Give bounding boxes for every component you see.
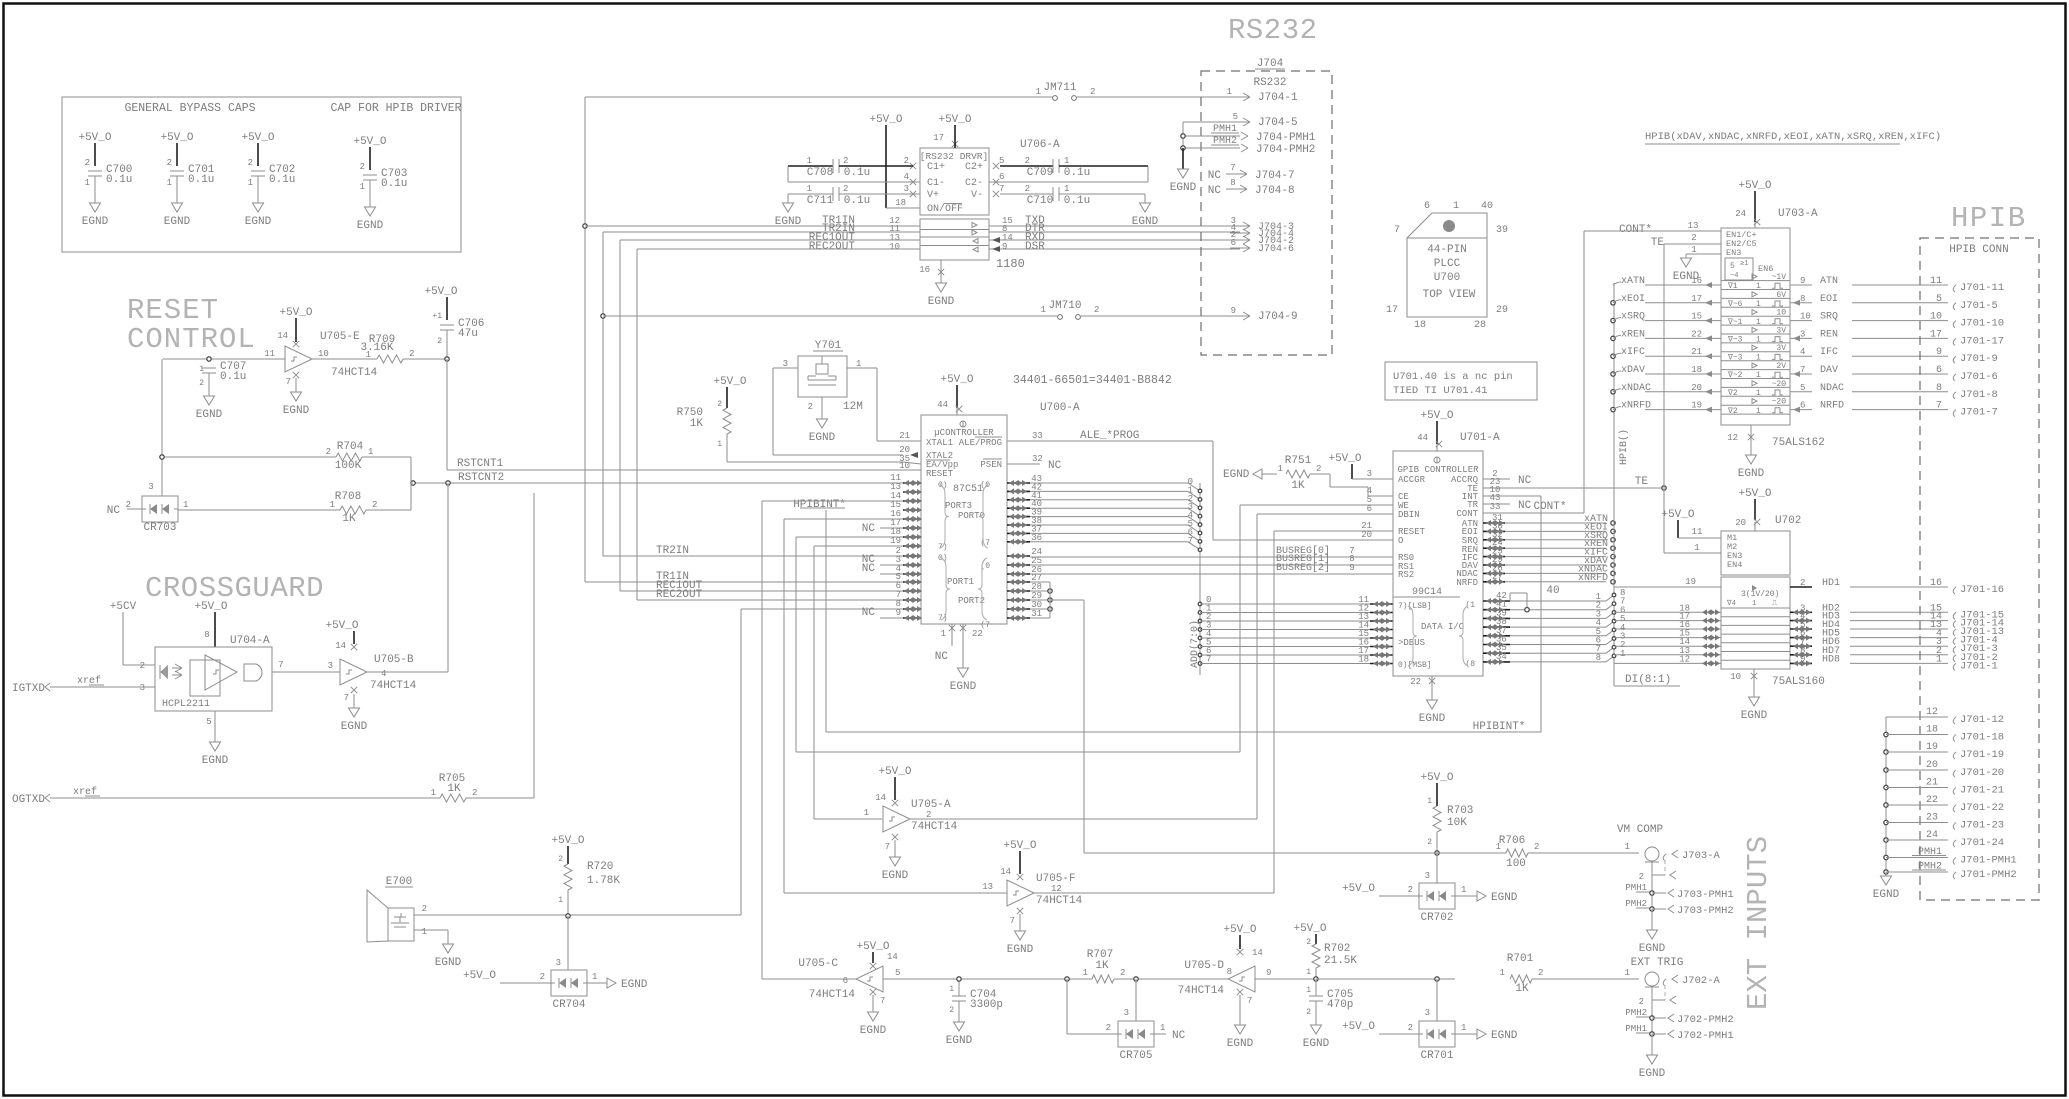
svg-text:21: 21 xyxy=(1926,778,1938,789)
svg-text:1: 1 xyxy=(183,500,188,510)
net ALE_*PROG xyxy=(1007,430,1213,540)
bus entry ADD 0 xyxy=(1188,477,1202,493)
bus HPIB() vertical xyxy=(1613,283,1615,678)
wire reset node to RSTCNT1 xyxy=(446,359,448,470)
svg-text:Y701: Y701 xyxy=(815,340,842,352)
svg-text:PORT2: PORT2 xyxy=(958,596,985,606)
resistor R708 xyxy=(178,491,411,525)
resistor R701 xyxy=(1500,953,1639,995)
ground EGND U703 EN3 xyxy=(1681,258,1692,267)
svg-text:9: 9 xyxy=(1936,347,1942,358)
op-amp U705-B xyxy=(325,620,416,733)
capacitor C710 xyxy=(1000,184,1159,228)
wire TR2IN trunk xyxy=(602,232,604,556)
svg-text:74HCT14: 74HCT14 xyxy=(809,989,856,1001)
svg-text:J701-16: J701-16 xyxy=(1960,584,2004,596)
svg-text:xIFC: xIFC xyxy=(1621,347,1645,358)
pin U701 22 EGND xyxy=(1410,676,1445,725)
diode CR702 xyxy=(1342,853,1518,924)
svg-text:J703-PMH2: J703-PMH2 xyxy=(1677,905,1734,917)
pin U701 D4 38 xyxy=(1483,614,1625,630)
power +5V_O U701 ACCGR xyxy=(1328,453,1374,479)
bus entry ADD 2 xyxy=(1188,494,1202,510)
svg-text:0.1u: 0.1u xyxy=(1064,195,1090,207)
net HD2 to J701-15 xyxy=(1790,603,2004,621)
svg-text:2: 2 xyxy=(360,162,365,172)
svg-text:74HCT14: 74HCT14 xyxy=(911,821,958,833)
svg-text:V-: V- xyxy=(971,190,983,201)
svg-text:6: 6 xyxy=(1231,238,1236,248)
svg-text:IFC: IFC xyxy=(1820,347,1838,358)
svg-text:EGND: EGND xyxy=(1223,469,1250,481)
pin U700 P1.1 3 xyxy=(896,555,922,568)
svg-text:14: 14 xyxy=(887,952,898,962)
svg-text:14: 14 xyxy=(335,641,346,651)
svg-text:2: 2 xyxy=(472,788,477,798)
svg-text:75ALS162: 75ALS162 xyxy=(1772,437,1825,449)
svg-text:HCPL2211: HCPL2211 xyxy=(162,699,210,710)
svg-text:EGND: EGND xyxy=(621,979,648,991)
svg-text:+5V_O: +5V_O xyxy=(325,620,358,632)
wire riser x762 xyxy=(761,501,763,979)
ground EGND J704 xyxy=(1170,148,1197,194)
svg-text:+5V_O: +5V_O xyxy=(856,941,889,953)
svg-text:DI(8:1): DI(8:1) xyxy=(1625,674,1671,686)
svg-text:17: 17 xyxy=(933,133,944,143)
svg-text:R702: R702 xyxy=(1324,943,1350,955)
pin U700 P3.6 18 xyxy=(890,527,922,540)
pin U700 P2.6 30 xyxy=(1007,600,1042,612)
svg-text:PORT3: PORT3 xyxy=(945,501,972,511)
svg-text:3: 3 xyxy=(1425,871,1430,881)
svg-text:RS232: RS232 xyxy=(1228,14,1318,47)
svg-text:EGND: EGND xyxy=(82,216,109,228)
svg-text:U705-C: U705-C xyxy=(798,958,838,970)
svg-text:C2-: C2- xyxy=(965,178,983,189)
svg-text:EGND: EGND xyxy=(1491,892,1518,904)
wire riser x784 xyxy=(783,519,785,893)
svg-text:7: 7 xyxy=(1247,996,1252,1006)
connector J702-A EXT TRIG xyxy=(1631,957,1684,969)
pin U700 P0.7 43 xyxy=(1007,474,1188,486)
svg-text:21.5K: 21.5K xyxy=(1324,955,1357,967)
svg-text:17: 17 xyxy=(1930,329,1942,340)
net xNDAC to U703 pin 20 xyxy=(1611,383,1721,395)
svg-text:∇2: ∇2 xyxy=(1727,389,1738,398)
svg-text:3V: 3V xyxy=(1776,326,1786,335)
pin J704-7 xyxy=(1208,163,1295,182)
svg-text:2: 2 xyxy=(1408,885,1413,895)
svg-text:∇2: ∇2 xyxy=(1727,407,1738,416)
svg-text:11: 11 xyxy=(1692,527,1703,537)
svg-text:100K: 100K xyxy=(335,460,362,472)
svg-text:1: 1 xyxy=(1756,371,1761,380)
svg-text:TOP VIEW: TOP VIEW xyxy=(1423,289,1476,301)
svg-text:40: 40 xyxy=(1546,585,1559,597)
svg-text:1: 1 xyxy=(807,156,812,166)
svg-text:6: 6 xyxy=(999,172,1004,182)
svg-text:7: 7 xyxy=(1010,916,1015,926)
wire riser x814 xyxy=(813,546,815,819)
svg-text:U700-A: U700-A xyxy=(1040,402,1080,414)
svg-text:14: 14 xyxy=(1000,867,1011,877)
net DI4 to U702 pin 15 xyxy=(1614,629,1721,641)
svg-text:∇1: ∇1 xyxy=(1727,282,1738,291)
svg-text:19: 19 xyxy=(1926,742,1938,753)
wire CE riser xyxy=(1367,487,1369,496)
svg-text:EGND: EGND xyxy=(1741,710,1768,722)
net NRFD to J701-7 xyxy=(1790,401,1998,419)
svg-text:1: 1 xyxy=(330,500,335,510)
net DI5 to U702 pin 14 xyxy=(1614,637,1721,649)
ground EGND J701 xyxy=(1873,872,1900,901)
svg-text:EXT INPUTS: EXT INPUTS xyxy=(1742,836,1775,1010)
svg-text:PLCC: PLCC xyxy=(1434,258,1461,270)
svg-text:+1: +1 xyxy=(432,312,442,321)
svg-text:EGND: EGND xyxy=(1007,944,1034,956)
svg-text:CR701: CR701 xyxy=(1420,1050,1453,1062)
svg-text:EGND: EGND xyxy=(283,405,310,417)
wire P2.3 row bracket xyxy=(1030,581,1050,583)
diode CR703 xyxy=(107,482,189,534)
pin U700 P0.0 36 xyxy=(1007,533,1188,545)
svg-text:33: 33 xyxy=(1032,431,1043,441)
pin U700 P2.5 29 xyxy=(1007,591,1042,603)
wire Y701 pin1 to XTAL1 xyxy=(847,367,877,369)
svg-text:1: 1 xyxy=(1227,87,1232,97)
svg-text:3(1V/2Θ): 3(1V/2Θ) xyxy=(1741,590,1779,599)
svg-text:1Θ: 1Θ xyxy=(1776,309,1786,318)
svg-text:20: 20 xyxy=(1361,530,1372,540)
svg-text:J701-21: J701-21 xyxy=(1960,785,2004,797)
svg-text:J704-1: J704-1 xyxy=(1258,92,1298,104)
svg-text:1: 1 xyxy=(1064,156,1069,166)
svg-text:1: 1 xyxy=(366,350,371,360)
svg-text:8: 8 xyxy=(204,630,209,640)
svg-text:J704-PMH1: J704-PMH1 xyxy=(1256,132,1316,144)
svg-text:CR704: CR704 xyxy=(552,999,585,1011)
svg-text:J704-PMH2: J704-PMH2 xyxy=(1256,144,1315,156)
svg-text:EGND: EGND xyxy=(1639,943,1666,955)
svg-text:+5V_O: +5V_O xyxy=(1738,488,1771,500)
svg-text:∇~3: ∇~3 xyxy=(1727,353,1743,362)
svg-text:9: 9 xyxy=(1002,242,1007,252)
pin U703 12 EGND xyxy=(1727,425,1825,480)
svg-text:2: 2 xyxy=(85,158,90,168)
svg-text:1: 1 xyxy=(1756,389,1761,398)
svg-text:∇4: ∇4 xyxy=(1726,600,1737,608)
svg-text:2: 2 xyxy=(372,500,377,510)
svg-text:0.1u: 0.1u xyxy=(1064,167,1090,179)
svg-text:24: 24 xyxy=(1926,830,1938,841)
pin U700 P2.3 27 xyxy=(1007,573,1042,585)
wire Y701 pin3 to XTAL2 xyxy=(773,367,798,369)
resistor R702 xyxy=(1293,923,1357,981)
svg-text:J701-20: J701-20 xyxy=(1960,767,2004,779)
svg-text:22: 22 xyxy=(972,629,983,639)
svg-text:5: 5 xyxy=(206,717,211,727)
pin U700 P0.2 38 xyxy=(1007,516,1188,528)
svg-text:1180: 1180 xyxy=(996,257,1025,271)
svg-text:J702-PMH1: J702-PMH1 xyxy=(1677,1030,1734,1042)
svg-text:∇~1: ∇~1 xyxy=(1727,318,1743,327)
svg-text:3: 3 xyxy=(556,958,561,968)
svg-text:8: 8 xyxy=(1227,967,1232,977)
svg-text:22: 22 xyxy=(1926,795,1938,806)
svg-text:CR702: CR702 xyxy=(1420,912,1453,924)
power +5V_O U706 on/off xyxy=(869,114,920,208)
pin U701 40 nc loop xyxy=(1510,585,1560,612)
wire riser x1274 to RESET xyxy=(1007,531,1274,956)
svg-text:1: 1 xyxy=(1160,1023,1165,1033)
svg-text:J702-PMH2: J702-PMH2 xyxy=(1677,1014,1734,1026)
svg-text:RSTCNT2: RSTCNT2 xyxy=(458,472,504,484)
resistor R720 xyxy=(551,835,620,918)
svg-text:J701-24: J701-24 xyxy=(1960,837,2004,849)
svg-text:5: 5 xyxy=(1730,262,1735,271)
svg-text:EGND: EGND xyxy=(202,755,229,767)
bus exit ADD 5 to U701 xyxy=(1198,638,1393,650)
svg-text:NC: NC xyxy=(1518,500,1532,512)
ic U706-A RS232 driver xyxy=(895,133,1060,215)
pin U701 D1 42 xyxy=(1483,588,1625,604)
svg-text:+5V_O: +5V_O xyxy=(78,132,111,144)
bus exit ADD 1 to U701 xyxy=(1198,604,1393,616)
svg-text:47u: 47u xyxy=(458,328,478,340)
svg-text:C1-: C1- xyxy=(927,178,945,189)
wire REC1OUT trunk xyxy=(619,240,621,591)
pin U700 P1.3 5 xyxy=(896,572,922,585)
svg-text:2: 2 xyxy=(326,447,331,457)
net xIFC to U703 pin 21 xyxy=(1611,347,1721,359)
net DI6 to U702 pin 13 xyxy=(1614,646,1721,658)
svg-text:NC: NC xyxy=(862,563,876,575)
svg-text:3V: 3V xyxy=(1776,344,1786,353)
svg-text:+5V_O: +5V_O xyxy=(1328,453,1361,465)
wire TR1IN trunk xyxy=(584,97,586,582)
svg-text:18: 18 xyxy=(1358,655,1369,665)
pin J704-8 xyxy=(1208,178,1295,197)
wire P2.6 drop xyxy=(1030,608,1050,610)
svg-text:RS2: RS2 xyxy=(1398,570,1414,580)
svg-text:2: 2 xyxy=(1316,464,1321,474)
svg-text:+5V_O: +5V_O xyxy=(1342,1021,1375,1033)
connector J704 xyxy=(1201,58,1332,355)
svg-text:44: 44 xyxy=(937,400,948,410)
svg-text:1: 1 xyxy=(431,788,436,798)
svg-text:EGND: EGND xyxy=(245,216,272,228)
power +5V_O U702 pin20 xyxy=(1735,488,1801,531)
svg-text:XTAL1: XTAL1 xyxy=(926,438,953,448)
pin U700 P3.0 11 xyxy=(890,473,922,486)
pin U700 P1.6 8 xyxy=(896,599,922,612)
svg-text:R708: R708 xyxy=(335,491,361,503)
svg-text:NC: NC xyxy=(1208,185,1222,197)
svg-text:2: 2 xyxy=(409,349,414,359)
svg-text:J701-8: J701-8 xyxy=(1960,389,1998,401)
svg-text:1: 1 xyxy=(1306,986,1311,995)
pin U700 P2.7 31 xyxy=(1007,609,1042,621)
svg-text:C708: C708 xyxy=(807,167,833,179)
net CONT* riser xyxy=(1583,231,1585,513)
pin U701 D7 35 xyxy=(1483,640,1625,656)
svg-text:REN: REN xyxy=(1820,329,1838,340)
diagram 44-PIN PLCC U700 top view xyxy=(1386,201,1508,331)
svg-text:DATA I/O: DATA I/O xyxy=(1421,622,1464,632)
svg-text:EGND: EGND xyxy=(928,296,955,308)
svg-text:23: 23 xyxy=(1926,813,1938,824)
svg-text:∇~6: ∇~6 xyxy=(1727,300,1743,309)
svg-text:12M: 12M xyxy=(843,401,863,413)
svg-text:5: 5 xyxy=(999,156,1004,166)
svg-text:EXT TRIG: EXT TRIG xyxy=(1631,957,1684,969)
svg-text:O: O xyxy=(1398,536,1403,546)
svg-text:J701-18: J701-18 xyxy=(1960,732,2004,744)
svg-text:10: 10 xyxy=(318,349,329,359)
svg-text:10: 10 xyxy=(889,242,900,252)
svg-text:~2Θ: ~2Θ xyxy=(1772,398,1787,407)
pin J704-PMH1 xyxy=(1181,124,1316,144)
svg-text:1: 1 xyxy=(1694,543,1699,553)
diode CR704 xyxy=(463,916,648,1011)
svg-text:BUSREG[2]: BUSREG[2] xyxy=(1276,562,1330,574)
svg-text:U701.40 is a nc pin: U701.40 is a nc pin xyxy=(1393,371,1513,383)
svg-text:1: 1 xyxy=(1756,336,1761,345)
svg-text:18: 18 xyxy=(1926,725,1938,736)
svg-text:1: 1 xyxy=(558,896,563,905)
svg-text:1: 1 xyxy=(360,182,365,192)
svg-text:16: 16 xyxy=(1930,578,1942,589)
svg-text:REC2OUT: REC2OUT xyxy=(809,241,856,253)
svg-text:1: 1 xyxy=(949,985,954,994)
svg-text:2: 2 xyxy=(1408,1023,1413,1033)
svg-text:2: 2 xyxy=(167,158,172,168)
svg-text:6: 6 xyxy=(843,976,848,986)
svg-text:1: 1 xyxy=(1496,842,1501,852)
svg-text:74HCT14: 74HCT14 xyxy=(331,367,378,379)
svg-text:2: 2 xyxy=(1639,997,1644,1007)
svg-text:5: 5 xyxy=(1233,112,1238,122)
svg-text:2: 2 xyxy=(843,156,848,166)
svg-text:HPIB(xDAV,xNDAC,xNRFD,xEOI,xAT: HPIB(xDAV,xNDAC,xNRFD,xEOI,xATN,xSRQ,xRE… xyxy=(1645,131,1941,143)
svg-text:0.1u: 0.1u xyxy=(381,178,407,190)
svg-text:1K: 1K xyxy=(1095,960,1109,972)
capacitor C704 xyxy=(946,977,1003,1047)
svg-text:2: 2 xyxy=(422,904,427,914)
svg-text:2V: 2V xyxy=(1776,362,1786,371)
svg-text:14: 14 xyxy=(1252,948,1263,958)
pin U700 P3.2 14 xyxy=(890,491,922,504)
svg-text:J701-11: J701-11 xyxy=(1960,282,2004,294)
svg-text:13: 13 xyxy=(982,882,993,892)
power +5V_O U701 pin44 xyxy=(1417,410,1500,451)
svg-text:CROSSGUARD: CROSSGUARD xyxy=(145,572,324,605)
svg-text:1: 1 xyxy=(1083,968,1088,978)
svg-text:7: 7 xyxy=(880,996,885,1006)
net xNRFD from U701 xyxy=(1483,572,1615,585)
svg-text:R703: R703 xyxy=(1447,805,1473,817)
svg-text:2: 2 xyxy=(1538,968,1543,978)
svg-text:1: 1 xyxy=(592,972,597,982)
bus entry ADD 6 xyxy=(1188,527,1202,543)
svg-text:U705-B: U705-B xyxy=(374,654,414,666)
pin U700 P3.1 13 xyxy=(890,482,922,495)
pin U700 P2.4 28 xyxy=(1007,582,1042,594)
net IFC to J701-9 xyxy=(1790,347,1998,365)
svg-text:EGND: EGND xyxy=(1873,889,1900,901)
svg-text:8: 8 xyxy=(1936,383,1942,394)
wire REC2OUT trunk xyxy=(636,249,638,600)
pin U700 P1.5 7 xyxy=(896,590,922,603)
svg-text:+5CV: +5CV xyxy=(110,601,137,613)
svg-text:HPIB: HPIB xyxy=(1951,202,2027,235)
svg-text:2: 2 xyxy=(904,156,909,166)
svg-text:J701-PMH1: J701-PMH1 xyxy=(1960,855,2017,867)
pin U700 P0.5 41 xyxy=(1007,491,1188,503)
net HD4 to J701-13 xyxy=(1790,620,2004,638)
svg-text:7: 7 xyxy=(278,660,283,670)
pin U700 P3.7 19 xyxy=(890,536,922,549)
net TE to U702 xyxy=(1664,488,1721,553)
svg-text:1: 1 xyxy=(248,178,253,188)
pin U700 1 NC xyxy=(949,625,955,631)
svg-text:CONT*: CONT* xyxy=(1533,501,1566,513)
svg-text:J701-9: J701-9 xyxy=(1960,353,1998,365)
svg-text:6: 6 xyxy=(1424,201,1430,212)
resistor R707 xyxy=(1083,949,1228,983)
net xDAV from U701 xyxy=(1483,555,1615,568)
capacitor C709 xyxy=(989,156,1148,182)
svg-text:3: 3 xyxy=(140,683,145,693)
svg-text:14: 14 xyxy=(875,793,886,803)
svg-text:xSRQ: xSRQ xyxy=(1621,312,1645,323)
svg-text:TIED TI U701.41: TIED TI U701.41 xyxy=(1393,385,1488,397)
pin U700 P0.3 39 xyxy=(1007,508,1188,520)
svg-text:+5V_O: +5V_O xyxy=(1420,410,1453,422)
svg-text:NRFD: NRFD xyxy=(1456,578,1478,588)
svg-text:8: 8 xyxy=(1596,653,1601,663)
bus entry ADD 7 xyxy=(1188,536,1202,552)
ic U706-A buffer section xyxy=(919,219,1025,308)
resistor R704 xyxy=(162,441,411,472)
svg-text:2: 2 xyxy=(808,402,813,412)
svg-text:6V: 6V xyxy=(1776,291,1786,300)
svg-text:EN3: EN3 xyxy=(1726,248,1741,258)
svg-text:NDAC: NDAC xyxy=(1820,383,1844,394)
wire P2 riser to VM comp xyxy=(1050,599,1084,601)
svg-text:+5V_O: +5V_O xyxy=(160,132,193,144)
svg-text:EGND: EGND xyxy=(1639,1068,1666,1080)
svg-text:2: 2 xyxy=(1691,233,1696,243)
net HPIBINT* riser xyxy=(1540,496,1542,732)
svg-text:0.1u: 0.1u xyxy=(269,174,295,186)
svg-text:J701-12: J701-12 xyxy=(1960,714,2004,726)
net xNDAC from U701 xyxy=(1483,563,1615,576)
connector J701 lower pin group xyxy=(1884,707,2017,881)
svg-text:33: 33 xyxy=(1490,502,1501,512)
svg-text:+5V_O: +5V_O xyxy=(1003,840,1036,852)
pin U700 P2.2 26 xyxy=(1007,565,1042,577)
op-amp U705-F xyxy=(784,840,1274,907)
svg-text:EOI: EOI xyxy=(1820,294,1838,305)
svg-text:24: 24 xyxy=(1735,209,1746,219)
wire OGTXD riser to U700 pin13 xyxy=(533,493,535,798)
svg-text:GENERAL BYPASS CAPS: GENERAL BYPASS CAPS xyxy=(124,102,255,115)
svg-text:DSR: DSR xyxy=(1025,241,1045,253)
net xNRFD to U703 pin 19 xyxy=(1611,401,1721,413)
net DI7 to U702 pin 12 xyxy=(1614,654,1721,666)
svg-text:EGND: EGND xyxy=(1491,1030,1518,1042)
